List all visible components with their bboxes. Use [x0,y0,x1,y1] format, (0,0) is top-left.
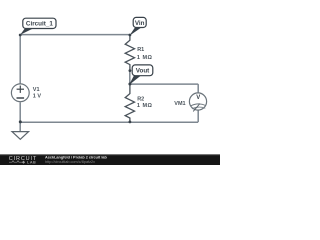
svg-text:VM1: VM1 [174,101,185,107]
svg-text:http://circuitlab.com/c/8pafz2: http://circuitlab.com/c/8pafz2v [45,160,95,164]
svg-text:1 V: 1 V [33,93,42,99]
svg-text:1 MΩ: 1 MΩ [137,103,153,109]
svg-text:V: V [196,95,200,101]
svg-text:Circuit_1: Circuit_1 [26,21,53,28]
svg-text:R2: R2 [137,97,144,103]
svg-text:R1: R1 [137,47,144,53]
svg-text:V1: V1 [33,87,40,93]
svg-text:Vout: Vout [136,68,150,75]
svg-text:Vin: Vin [135,20,145,27]
svg-text:LAB: LAB [27,160,36,164]
svg-text:1 MΩ: 1 MΩ [137,55,153,61]
svg-text:AsckLangfeld / Prelab 2 circui: AsckLangfeld / Prelab 2 circuit lab [45,156,108,160]
